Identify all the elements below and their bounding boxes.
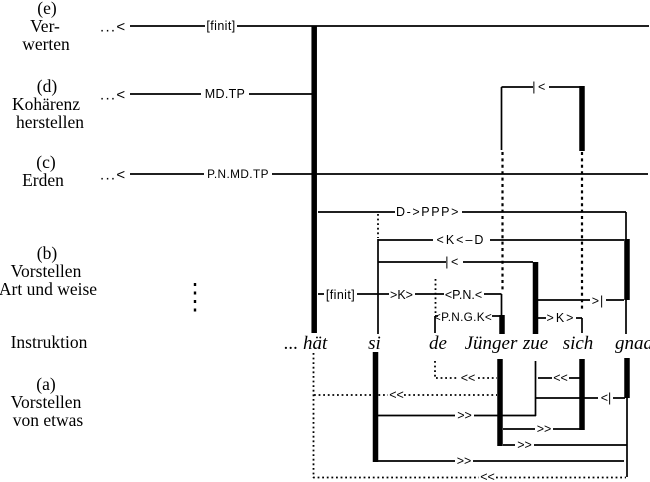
svg-text:<K<–D: <K<–D [437,233,486,247]
svg-text:Kohärenz: Kohärenz [12,94,80,114]
svg-text:D->PPP>: D->PPP> [396,205,460,219]
svg-text:P.N.MD.TP: P.N.MD.TP [207,167,269,181]
svg-text:>>: >> [517,438,532,452]
svg-text:...<: ...< [100,167,126,184]
svg-text:<P.N.G.K<: <P.N.G.K< [434,310,492,324]
svg-text:Jünger: Jünger [465,333,518,354]
svg-text:Instruktion: Instruktion [11,332,88,352]
svg-text:|<: |< [532,80,548,94]
svg-text:...<: ...< [100,87,126,104]
svg-text:[finit]: [finit] [206,19,235,33]
svg-text:herstellen: herstellen [16,112,84,132]
svg-text:Vorstellen: Vorstellen [11,261,82,281]
svg-text:Art und weise: Art und weise [0,279,97,299]
svg-text:>|: >| [592,294,605,308]
svg-text:>K>: >K> [547,311,576,325]
svg-text:(b): (b) [37,243,58,263]
svg-text:Vorstellen: Vorstellen [11,392,82,412]
svg-text:>>: >> [457,409,472,423]
svg-text:[finit]: [finit] [326,288,355,302]
svg-text:(c): (c) [36,152,56,172]
svg-text:>>: >> [457,454,472,468]
svg-text:sich: sich [563,333,594,354]
svg-text:<<: << [389,388,404,402]
svg-text:MD.TP: MD.TP [205,87,245,101]
svg-text:>K>: >K> [390,288,413,302]
svg-text:werten: werten [22,34,70,54]
svg-text:<<: << [461,371,476,385]
svg-text:von etwas: von etwas [13,410,84,430]
svg-text:gnaad: gnaad [615,333,650,354]
svg-text:<<: << [553,371,568,385]
svg-text:>>: >> [537,422,552,436]
svg-text:(d): (d) [37,76,58,96]
svg-text:si: si [368,333,381,354]
svg-text:<<: << [480,470,495,482]
svg-text:Erden: Erden [22,170,64,190]
svg-text:... hät: ... hät [284,333,328,354]
svg-text:...<: ...< [100,19,126,36]
svg-text:<|: <| [601,391,612,405]
svg-text:Ver-: Ver- [30,16,60,36]
svg-text:zue: zue [522,333,548,354]
svg-text:(a): (a) [36,374,56,394]
svg-text:|<: |< [445,255,461,269]
svg-text:<P.N.<: <P.N.< [445,288,482,302]
svg-text:de: de [429,333,447,354]
